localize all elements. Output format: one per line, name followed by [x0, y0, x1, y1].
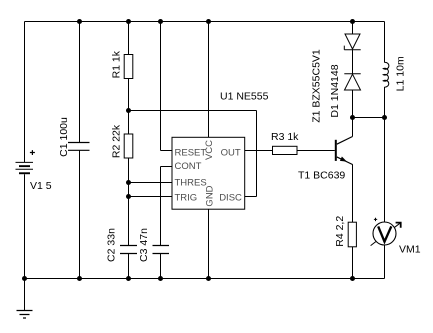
svg-text:R2 22k: R2 22k — [111, 124, 123, 158]
svg-text:U1 NE555: U1 NE555 — [220, 91, 269, 103]
svg-text:D1 1N4148: D1 1N4148 — [329, 64, 341, 117]
svg-text:RESET: RESET — [175, 148, 207, 159]
svg-text:TRIG: TRIG — [175, 192, 198, 203]
svg-text:CONT: CONT — [175, 161, 202, 172]
svg-text:VM1: VM1 — [399, 244, 421, 256]
svg-text:GND: GND — [205, 185, 216, 206]
svg-text:DISC: DISC — [219, 192, 242, 203]
svg-text:R1 1k: R1 1k — [111, 50, 123, 78]
svg-text:VCC: VCC — [204, 140, 215, 160]
svg-text:C3 47n: C3 47n — [138, 228, 150, 262]
svg-text:V1 5: V1 5 — [30, 180, 52, 192]
svg-text:L1 10m: L1 10m — [394, 56, 406, 91]
svg-text:R3 1k: R3 1k — [271, 131, 299, 143]
svg-text:C2 33n: C2 33n — [106, 228, 118, 262]
svg-text:Z1 BZX55C5V1: Z1 BZX55C5V1 — [311, 49, 323, 123]
svg-text:OUT: OUT — [221, 148, 241, 159]
svg-text:T1 BC639: T1 BC639 — [298, 170, 345, 182]
svg-text:THRES: THRES — [175, 178, 207, 189]
svg-text:R4 2,2: R4 2,2 — [334, 216, 346, 247]
svg-text:C1 100u: C1 100u — [58, 117, 70, 157]
